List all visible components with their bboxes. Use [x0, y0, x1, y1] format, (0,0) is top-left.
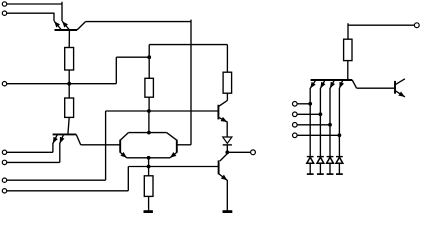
- transistor Q5L base bar: [119, 140, 121, 153]
- junction node C: [147, 55, 151, 59]
- wire IN6 riser to top rail: [105, 111, 107, 180]
- junction emitter rail: [147, 156, 151, 160]
- wire emitter rail to R6: [148, 158, 150, 176]
- junction A1: [308, 102, 312, 106]
- terminal IN3: [2, 82, 6, 86]
- wire A3 horizontal: [297, 124, 330, 126]
- transistor Q1 emitter 1: [54, 21, 61, 30]
- transistor Q2 emitter 2: [60, 134, 64, 143]
- junction output node: [225, 150, 229, 154]
- wire rail to collector node: [148, 111, 150, 133]
- wire D3 anode lead: [319, 163, 321, 174]
- diode D2: [307, 157, 314, 163]
- wire Q2 collector to Q5L base: [81, 144, 121, 146]
- transistor Q8 emitter: [395, 91, 405, 97]
- ground tick D5: [336, 173, 343, 175]
- transistor Q1 emitter 2: [62, 21, 69, 30]
- wire IN7 riser: [127, 167, 129, 191]
- resistor R3: [145, 78, 154, 97]
- wire node C upper horizontal: [149, 44, 227, 46]
- wire D2 anode lead: [309, 163, 311, 174]
- terminal A4: [293, 133, 298, 138]
- junction collector node: [147, 131, 151, 135]
- terminal A2: [293, 112, 298, 117]
- resistor R1: [65, 48, 74, 71]
- diode D4: [327, 157, 334, 163]
- wire Q2 emitter 1 drop: [52, 143, 54, 152]
- wire Q4 emitter to ground: [226, 180, 228, 211]
- transistor Q1 base lead: [68, 30, 70, 48]
- ground tick D4: [327, 173, 334, 175]
- wire IN5 horizontal: [7, 161, 60, 163]
- diode D2 cathode bar: [307, 156, 314, 158]
- transistor Q4 emitter: [219, 174, 228, 181]
- diode D5: [336, 157, 343, 163]
- wire A2 horizontal: [297, 113, 320, 115]
- terminal IN7: [2, 189, 6, 193]
- transistor Q7 collector: [352, 80, 356, 88]
- diode D4 cathode bar: [327, 156, 334, 158]
- transistor Q7 emitter 1: [310, 80, 316, 88]
- ground G2: [223, 210, 233, 213]
- transistor Q5R emitter: [170, 152, 177, 157]
- wire IN2 drop to Q1 emitter 1: [53, 13, 55, 21]
- junction A4: [338, 133, 342, 137]
- transistor Q3 collector: [218, 100, 227, 106]
- ground tick D3: [317, 173, 324, 175]
- transistor Q4 collector: [220, 154, 227, 161]
- transistor Q5R collector: [167, 133, 177, 141]
- resistor R6: [144, 176, 153, 197]
- transistor Q1 collector: [77, 22, 86, 30]
- transistor Q8 base bar: [394, 81, 396, 94]
- diode D3 cathode bar: [317, 156, 324, 158]
- terminal IN2: [2, 11, 6, 15]
- wire Q5R base: [177, 144, 191, 146]
- wire Q7 emitter 3 vertical: [329, 88, 331, 157]
- wire R3 to rail: [148, 97, 150, 111]
- terminal VCC: [414, 23, 419, 28]
- wire emitter rail: [127, 157, 170, 159]
- wire R2 to Q2 base: [68, 117, 69, 134]
- ground G1: [144, 210, 153, 213]
- transistor Q5L emitter: [120, 152, 127, 157]
- wire D5 anode lead: [338, 163, 340, 174]
- wire tail node to Q4 base: [128, 166, 218, 168]
- diode D3: [317, 157, 324, 163]
- wire A1 horizontal: [297, 103, 310, 105]
- junction R1/R2/IN3: [67, 82, 71, 86]
- terminal IN6: [2, 178, 6, 182]
- wire Q1 collector to node B: [86, 21, 192, 23]
- wire collector node left: [128, 132, 149, 134]
- wire top rail: [106, 110, 219, 112]
- wire IN3 upper horizontal: [116, 56, 149, 58]
- wire Q7 emitter 4 vertical: [338, 88, 340, 157]
- transistor Q2 base bar: [53, 133, 77, 135]
- wire Q7 collector to Q8 base: [357, 87, 395, 89]
- wire Q7 emitter 1 vertical: [309, 88, 311, 157]
- junction A3: [328, 123, 332, 127]
- wire IN1 drop to Q1 emitter 2: [61, 2, 63, 21]
- wire node C drop: [148, 45, 150, 79]
- transistor Q7 emitter 4: [339, 80, 342, 88]
- wire Q2 emitter 2 drop: [59, 143, 61, 162]
- transistor Q7 emitter 3: [330, 80, 334, 88]
- wire IN1 horizontal: [7, 3, 62, 5]
- resistor R2: [65, 98, 74, 117]
- resistor R4: [223, 72, 232, 93]
- ground tick D2: [307, 173, 314, 175]
- terminal IN1: [2, 2, 6, 6]
- transistor Q5L collector: [120, 133, 128, 141]
- wire D1 to output node: [226, 145, 228, 152]
- terminal IN4: [2, 150, 6, 154]
- wire IN3 riser: [115, 57, 117, 83]
- transistor Q7 base bar: [311, 79, 353, 81]
- wire D4 anode lead: [329, 163, 331, 174]
- wire A4 horizontal: [297, 134, 339, 136]
- wire R5 to Q7 base: [347, 61, 349, 80]
- terminal OUT: [251, 150, 256, 155]
- diode D5 cathode bar: [336, 156, 343, 158]
- wire Q7 emitter 2 vertical: [319, 88, 321, 157]
- transistor Q3 emitter: [218, 117, 227, 122]
- resistor R5: [344, 39, 352, 60]
- wire VCC horizontal: [348, 24, 415, 26]
- wire Q3 emitter to D1: [226, 122, 228, 137]
- junction A2: [319, 112, 323, 116]
- wire node B drop: [190, 20, 192, 145]
- transistor Q3 base bar: [217, 105, 219, 120]
- wire R6 to ground: [148, 196, 150, 211]
- wire R4 to Q3 collector: [226, 93, 228, 100]
- wire output: [227, 151, 250, 153]
- transistor Q8 collector: [395, 79, 405, 85]
- wire IN3 horizontal: [7, 83, 117, 85]
- wire R1 to R2: [68, 70, 70, 98]
- terminal A1: [293, 102, 298, 107]
- wire collector node right: [149, 132, 167, 134]
- wire IN4 horizontal: [7, 151, 53, 153]
- junction rail/R3: [147, 109, 151, 113]
- terminal A3: [293, 123, 298, 128]
- transistor Q2 emitter 1: [53, 134, 58, 143]
- terminal IN5: [2, 160, 6, 164]
- transistor Q2 collector: [76, 134, 81, 144]
- transistor Q7 emitter 2: [320, 80, 325, 88]
- wire IN2 horizontal: [7, 12, 54, 14]
- transistor Q5R base bar: [176, 140, 178, 153]
- transistor Q1 base bar: [55, 29, 78, 31]
- wire VCC to R5: [347, 23, 349, 39]
- wire node C to R4: [226, 45, 228, 73]
- diode D1 cathode bar: [223, 144, 232, 146]
- diode D1: [223, 137, 232, 143]
- junction tail node: [147, 165, 151, 169]
- transistor Q4 base bar: [218, 160, 220, 174]
- wire IN7 horizontal: [7, 190, 129, 192]
- wire IN6 horizontal: [7, 179, 106, 181]
- wire output node to Q4 collector: [226, 152, 228, 153]
